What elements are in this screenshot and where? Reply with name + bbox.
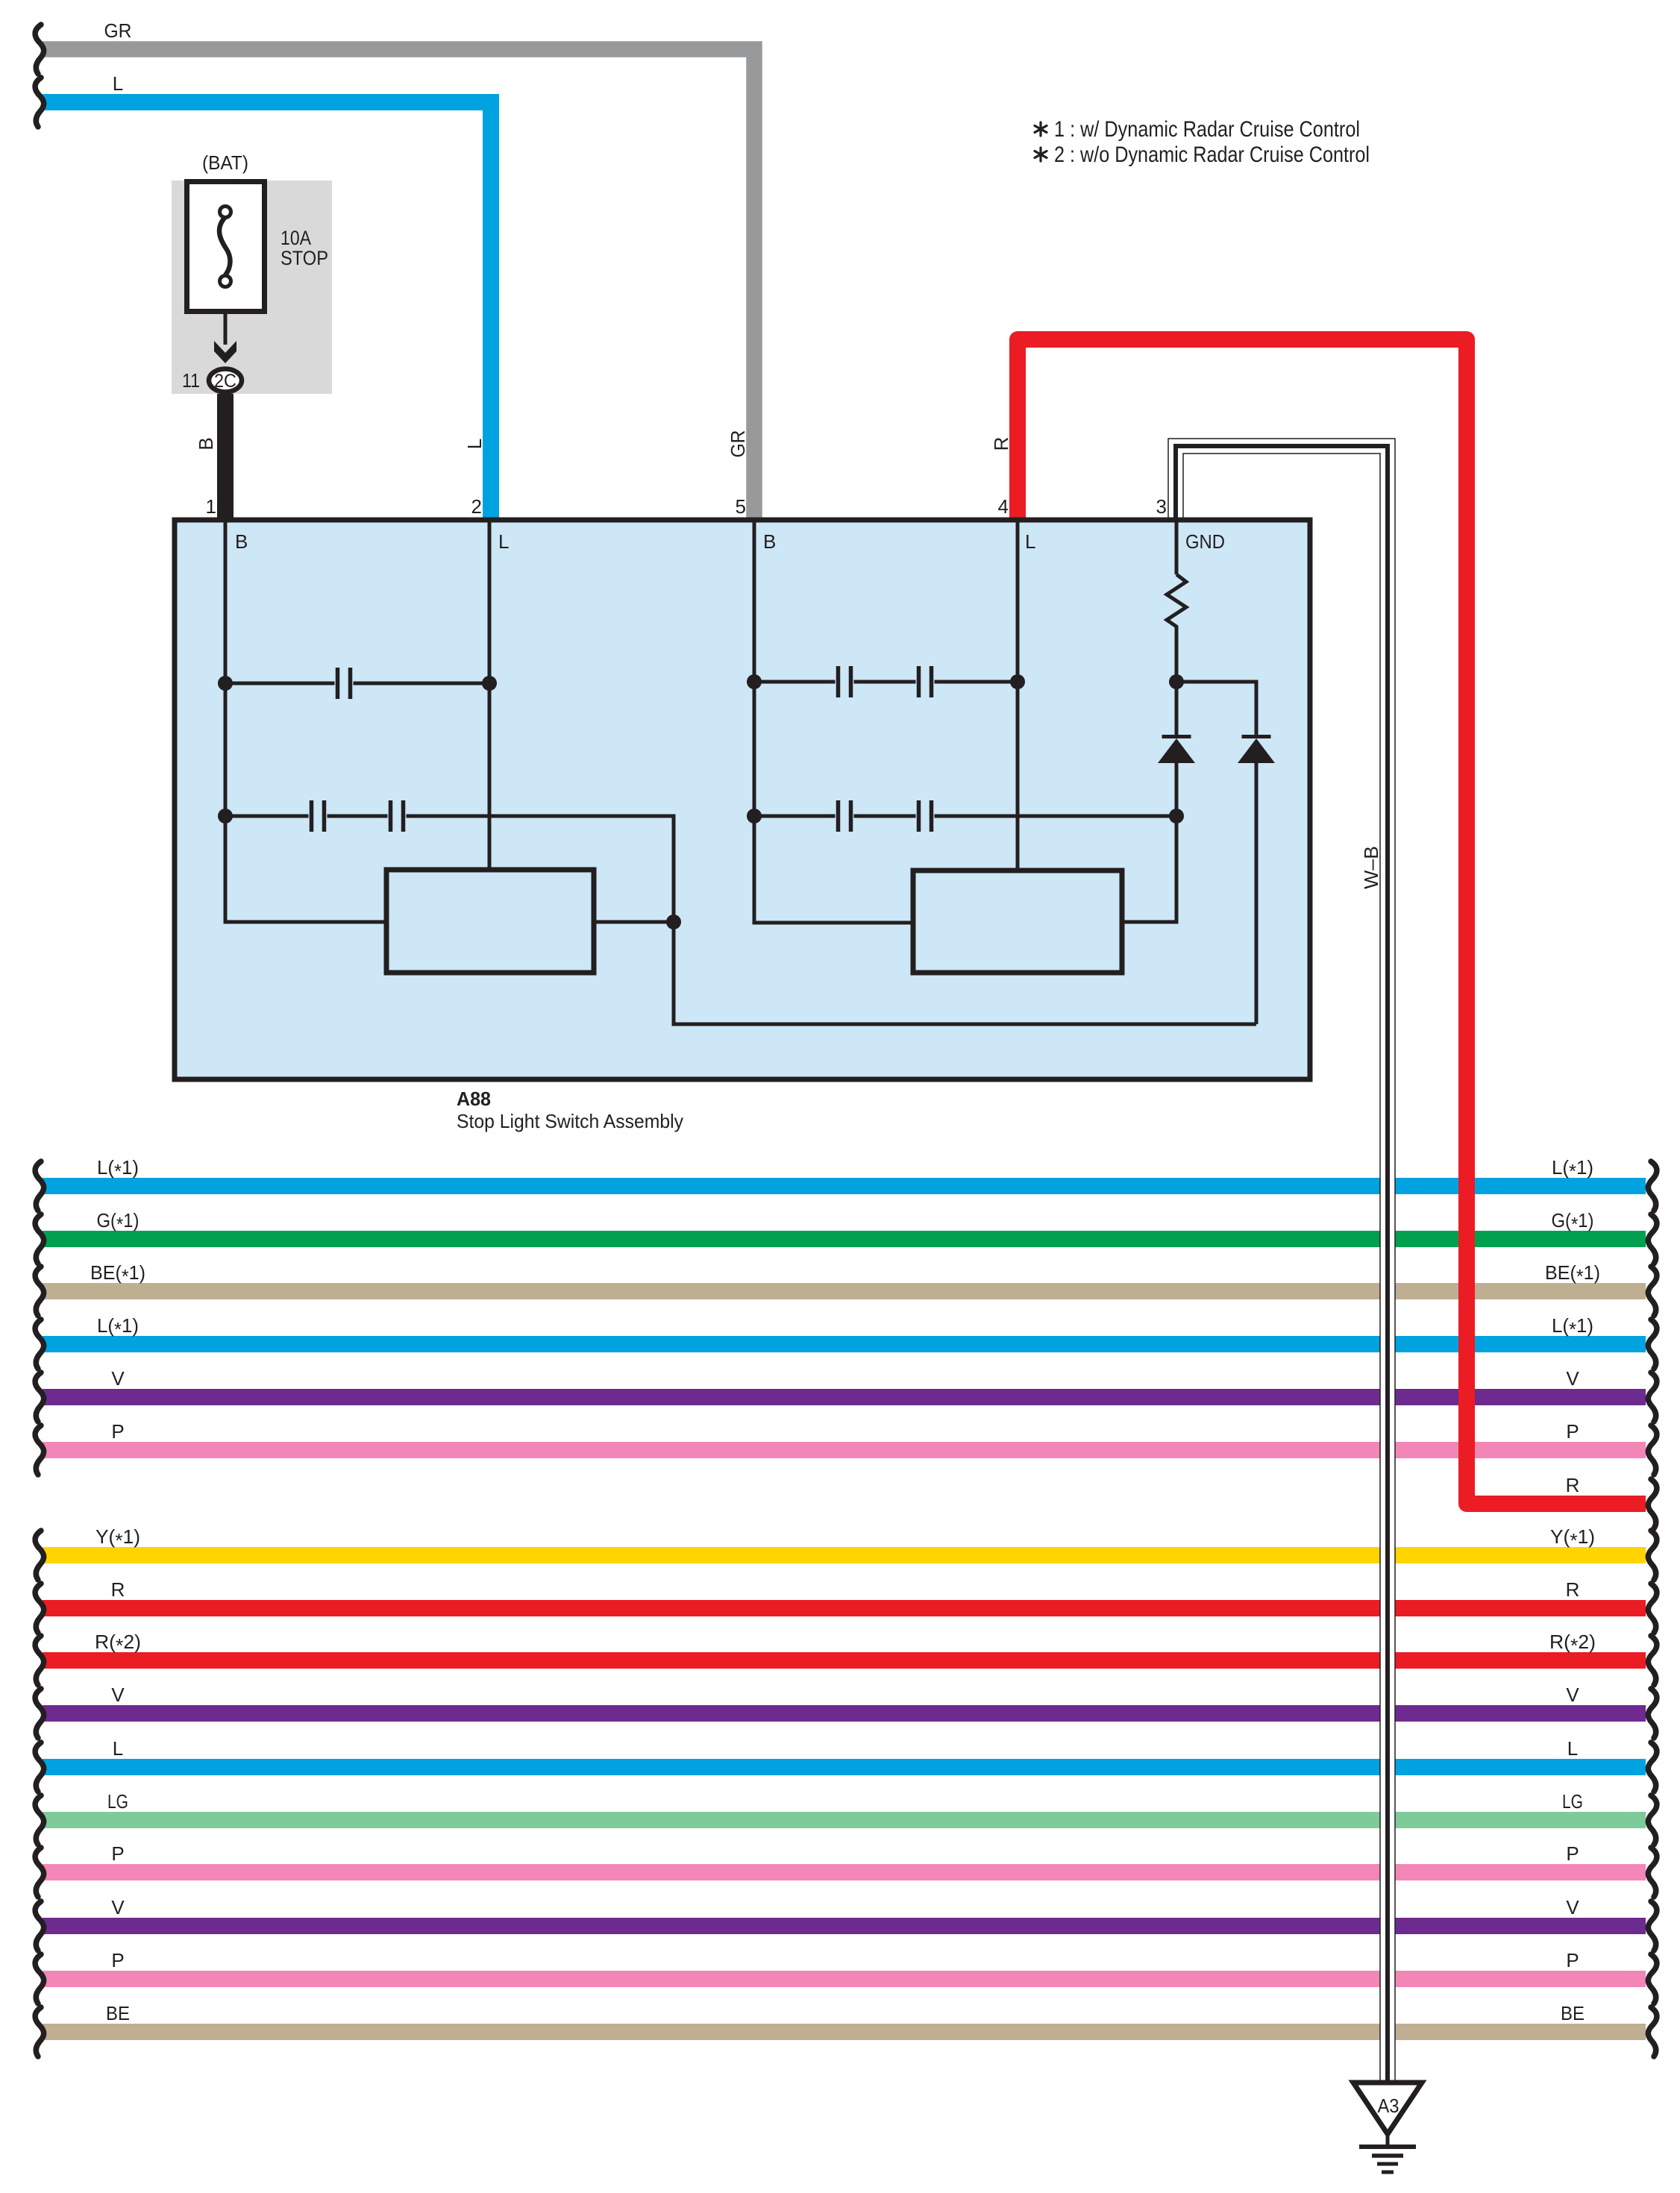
wire GR feeder (top) <box>43 49 754 521</box>
svg-text:B: B <box>763 530 776 553</box>
svg-text:GR: GR <box>727 430 749 458</box>
wire lower contact row left <box>225 816 1256 1024</box>
break symbol right row5 <box>1648 1372 1657 1422</box>
svg-text:Stop Light Switch Assembly: Stop Light Switch Assembly <box>457 1110 683 1132</box>
wire P row6 <box>43 1442 1646 1458</box>
ground A3 <box>1353 2083 1422 2134</box>
svg-text:2: 2 <box>471 495 482 518</box>
svg-text:1: 1 <box>206 495 216 518</box>
node junction pin5-lower <box>747 809 762 823</box>
break symbol right row13 <box>1648 1848 1657 1897</box>
svg-text:STOP: STOP <box>280 247 328 269</box>
svg-text:L(*1): L(*1) <box>97 1314 139 1340</box>
svg-text:V: V <box>1566 1896 1579 1919</box>
wire L column left <box>488 522 492 870</box>
svg-text:V: V <box>1566 1367 1579 1390</box>
break symbol GR feeder <box>35 25 44 74</box>
break symbol left row10 <box>35 1689 44 1738</box>
svg-text:A88: A88 <box>457 1088 491 1110</box>
wire lower contact row right <box>754 815 1176 818</box>
fuse 10A STOP <box>187 182 265 312</box>
wire L row11 <box>43 1759 1646 1775</box>
break symbol right row8 <box>1648 1584 1657 1633</box>
svg-text:Y(*1): Y(*1) <box>95 1525 140 1552</box>
svg-text:2C: 2C <box>214 371 236 392</box>
wire R(*2) row9 <box>43 1652 1646 1669</box>
break symbol left row8 <box>35 1584 44 1633</box>
wire fuse to connector <box>224 314 228 345</box>
svg-text:GND: GND <box>1185 530 1225 553</box>
svg-text:R: R <box>111 1578 125 1601</box>
break symbol left row3 <box>35 1267 44 1316</box>
svg-text:P: P <box>111 1949 124 1971</box>
wire W-B (pin 3 to ground) <box>1176 446 1388 2083</box>
svg-text:BE(*1): BE(*1) <box>90 1261 145 1287</box>
svg-text:V: V <box>1566 1684 1579 1706</box>
break symbol left row16 <box>35 2007 44 2056</box>
wire P row15 <box>43 1971 1646 1987</box>
resistor <box>1167 574 1186 630</box>
svg-text:V: V <box>111 1367 125 1390</box>
wire upper contact row right <box>754 680 1018 684</box>
wire BE(*1) row3 <box>43 1283 1646 1299</box>
svg-text:4: 4 <box>998 495 1009 518</box>
wire G(*1) row2 <box>43 1231 1646 1247</box>
wire BE row16 <box>43 2024 1646 2040</box>
contact S1 upper <box>336 668 340 699</box>
break symbol right row10 <box>1648 1689 1657 1738</box>
svg-text:V: V <box>111 1896 125 1919</box>
switch body right <box>913 870 1122 973</box>
break symbol right row16 <box>1648 2007 1657 2056</box>
wire L(*1) row4 <box>43 1336 1646 1352</box>
break symbol right row12 <box>1648 1795 1657 1845</box>
wire B column left <box>225 522 384 922</box>
break symbol right row7 <box>1648 1531 1657 1580</box>
contact S2 lower bar pair A <box>310 800 314 832</box>
wire switch2 output <box>1122 816 1176 922</box>
svg-text:L: L <box>498 530 509 553</box>
break symbol right row2 <box>1648 1214 1657 1264</box>
break symbol L feeder <box>35 78 44 127</box>
node junction pin1-lower <box>218 809 233 823</box>
break symbol left row5 <box>35 1372 44 1422</box>
svg-text:Y(*1): Y(*1) <box>1550 1525 1595 1552</box>
fuse block background <box>172 181 332 394</box>
wire B column right <box>754 522 911 923</box>
svg-text:LG: LG <box>1562 1790 1583 1813</box>
node junction D1-lower <box>1169 809 1184 823</box>
wire R row8 <box>43 1600 1646 1616</box>
contact S4 lower bar pair B <box>917 800 921 832</box>
svg-text:P: P <box>111 1842 124 1865</box>
wire upper contact row left <box>225 682 489 685</box>
contact S4 lower bar pair A <box>836 800 841 832</box>
wire GND junction to diode2 column <box>1176 682 1256 735</box>
break symbol left row13 <box>35 1848 44 1897</box>
wire V row14 <box>43 1918 1646 1934</box>
svg-text:L: L <box>463 439 486 449</box>
break symbol right row3 <box>1648 1267 1657 1316</box>
svg-text:V: V <box>111 1684 125 1706</box>
svg-text:11: 11 <box>182 369 200 392</box>
break symbol R right <box>1648 1479 1657 1528</box>
svg-text:G(*1): G(*1) <box>1552 1209 1594 1235</box>
contact S2 lower bar pair B <box>389 800 393 832</box>
svg-text:5: 5 <box>736 495 746 518</box>
wire L(*1) row1 <box>43 1178 1646 1194</box>
break symbol left row6 <box>35 1425 44 1475</box>
svg-text:R(*2): R(*2) <box>1549 1631 1596 1657</box>
svg-text:P: P <box>1566 1420 1579 1443</box>
svg-text:B: B <box>235 530 248 553</box>
svg-text:3: 3 <box>1156 495 1167 518</box>
svg-text:(BAT): (BAT) <box>202 151 248 174</box>
svg-text:P: P <box>1566 1949 1579 1971</box>
break symbol right row11 <box>1648 1742 1657 1792</box>
svg-text:W–B: W–B <box>1360 846 1382 889</box>
svg-text:P: P <box>111 1420 124 1443</box>
node junction GND-resistor <box>1169 674 1184 689</box>
break symbol right row1 <box>1648 1161 1657 1211</box>
break symbol right row4 <box>1648 1320 1657 1369</box>
node junction pin2-upper <box>482 676 497 691</box>
wire L feeder (top) <box>43 102 491 521</box>
node junction pin4-upper <box>1010 674 1025 689</box>
svg-text:L(*1): L(*1) <box>1552 1156 1593 1182</box>
svg-text:L(*1): L(*1) <box>97 1156 139 1182</box>
wire L column right <box>1016 522 1020 870</box>
contact S3 upper bar pair A <box>836 666 841 697</box>
wire switch1 output <box>594 920 674 924</box>
svg-text:P: P <box>1566 1842 1579 1865</box>
svg-text:G(*1): G(*1) <box>97 1209 140 1235</box>
svg-text:10A: 10A <box>280 227 311 249</box>
svg-text:A3: A3 <box>1378 2095 1400 2117</box>
break symbol left row15 <box>35 1954 44 2004</box>
diode D2 <box>1242 735 1271 738</box>
wire V row10 <box>43 1705 1646 1722</box>
svg-text:R: R <box>1566 1474 1580 1496</box>
arrowhead <box>214 341 236 363</box>
node junction pin5-upper <box>747 674 762 689</box>
svg-text:L(*1): L(*1) <box>1552 1314 1593 1340</box>
break symbol right row6 <box>1648 1425 1657 1475</box>
svg-text:BE: BE <box>1561 2002 1585 2024</box>
svg-text:2 : w/o Dynamic Radar Cruise C: 2 : w/o Dynamic Radar Cruise Control <box>1054 142 1370 167</box>
node junction switch1 output <box>666 914 681 929</box>
svg-text:L: L <box>1025 530 1035 553</box>
svg-text:R(*2): R(*2) <box>95 1631 141 1657</box>
break symbol left row2 <box>35 1214 44 1264</box>
svg-text:LG: LG <box>107 1790 128 1813</box>
svg-text:BE(*1): BE(*1) <box>1545 1261 1600 1287</box>
svg-text:B: B <box>195 437 217 450</box>
break symbol right row14 <box>1648 1901 1657 1951</box>
svg-text:L: L <box>113 1737 123 1760</box>
wire R (pin 4 loop to right edge) <box>1018 339 1646 1504</box>
note *1 <box>1035 122 1047 136</box>
break symbol left row11 <box>35 1742 44 1792</box>
contact S3 upper bar pair B <box>917 666 921 697</box>
svg-text:GR: GR <box>104 19 132 42</box>
wire GND column <box>1175 522 1179 735</box>
svg-text:R: R <box>990 437 1012 451</box>
wire Y(*1) row7 <box>43 1547 1646 1563</box>
break symbol left row1 <box>35 1161 44 1211</box>
break symbol left row9 <box>35 1636 44 1685</box>
wire V row5 <box>43 1389 1646 1405</box>
svg-text:R: R <box>1566 1578 1580 1601</box>
wire P row13 <box>43 1864 1646 1880</box>
break symbol left row12 <box>35 1795 44 1845</box>
svg-text:1 : w/ Dynamic Radar Cruise Co: 1 : w/ Dynamic Radar Cruise Control <box>1054 117 1360 142</box>
break symbol left row14 <box>35 1901 44 1951</box>
break symbol left row7 <box>35 1531 44 1580</box>
note *2 <box>1035 148 1047 161</box>
break symbol left row4 <box>35 1320 44 1369</box>
svg-text:L: L <box>113 72 123 95</box>
wire B (pin 1) <box>217 394 233 521</box>
A88 stop light switch assembly box <box>175 520 1310 1079</box>
switch body left <box>386 870 594 973</box>
break symbol right row9 <box>1648 1636 1657 1685</box>
svg-text:BE: BE <box>106 2002 130 2024</box>
diode D1 <box>1162 735 1191 738</box>
wire LG row12 <box>43 1812 1646 1828</box>
break symbol right row15 <box>1648 1954 1657 2004</box>
svg-text:L: L <box>1567 1737 1578 1760</box>
node junction pin1-upper <box>218 676 233 691</box>
connector 2C <box>209 369 242 392</box>
